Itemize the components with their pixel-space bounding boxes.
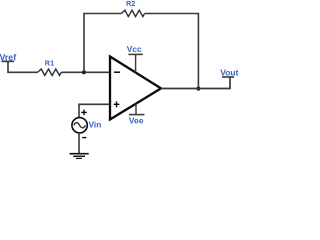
- source V1: [72, 110, 87, 138]
- port Vout: [220, 68, 238, 78]
- wire: [79, 104, 110, 117]
- svg-text:Vcc: Vcc: [127, 44, 142, 54]
- wire: [78, 133, 80, 153]
- svg-text:Vee: Vee: [129, 115, 144, 125]
- wire: [8, 61, 38, 72]
- svg-text:Vin: Vin: [89, 119, 102, 129]
- ground: [70, 154, 89, 159]
- port Vref: [0, 53, 16, 63]
- resistor R1: [38, 69, 62, 75]
- supply Vcc: [127, 44, 143, 72]
- svg-text:R2: R2: [126, 0, 135, 8]
- junction node OUT: [196, 87, 200, 91]
- wire: [145, 14, 199, 89]
- op-amp U1: [110, 57, 161, 120]
- wire: [84, 14, 121, 73]
- svg-text:Vout: Vout: [220, 68, 238, 78]
- svg-text:R1: R1: [45, 59, 54, 68]
- wire: [84, 71, 110, 73]
- junction node A: [82, 70, 86, 74]
- resistor R2: [121, 10, 144, 16]
- wire: [62, 71, 85, 73]
- supply Vee: [129, 103, 145, 125]
- wire: [161, 77, 230, 88]
